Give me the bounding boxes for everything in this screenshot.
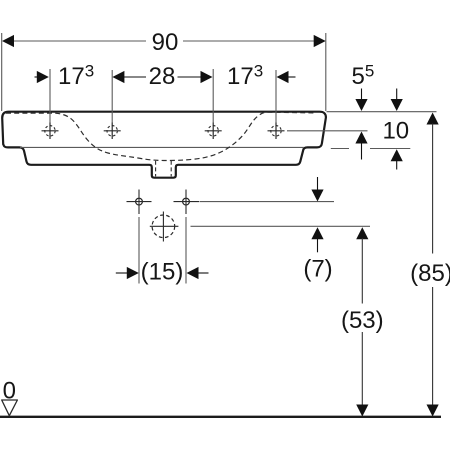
fixing hole right [183, 198, 190, 205]
dimension 28 left arrow [112, 71, 124, 83]
dimension 53 line [356, 227, 368, 239]
dimension 28 right arrow [178, 76, 203, 78]
dimension 7 bottom arrow [311, 227, 323, 239]
dimension 90 right arrow [314, 35, 326, 47]
extension line hole B [111, 70, 113, 123]
svg-text:(53): (53) [341, 307, 384, 334]
bowl interior dashed curve [6, 112, 316, 160]
floor line [0, 416, 441, 418]
tap hole B crosshair [104, 123, 121, 140]
datum triangle [2, 400, 18, 416]
dimension 10 top arrow [396, 89, 398, 102]
dimension 10 bottom arrow [391, 149, 403, 161]
basin outer silhouette [2, 112, 326, 178]
dimension 7 top arrow [317, 177, 319, 191]
dimension 5.5 top arrow [361, 89, 363, 102]
svg-text:(85): (85) [410, 260, 450, 287]
fixing hole left [136, 198, 143, 205]
drain notch dashed sides [155, 161, 157, 177]
dimension 17.3 right arrow [277, 71, 289, 83]
svg-text:90: 90 [152, 29, 179, 56]
extension line hole D [275, 70, 277, 123]
dimension 5.5 bottom arrow [355, 132, 367, 144]
dimension 90 left arrow [2, 35, 14, 47]
dimension 15 right arrow [187, 267, 199, 279]
dimension 90 line [13, 40, 146, 42]
dimension 90 right extension line [325, 33, 327, 111]
extension line hole C [212, 69, 214, 123]
dimension 15 extension lines [138, 217, 140, 284]
svg-text:(15): (15) [141, 259, 184, 286]
fixing holes leader line [200, 201, 335, 203]
basin rim/body junction line [20, 146, 304, 148]
extension line hole A [49, 69, 51, 123]
top reference line right [327, 111, 437, 113]
rim bottom reference line [331, 148, 349, 150]
drain hole dashed circle [152, 215, 175, 238]
svg-text:10: 10 [382, 117, 409, 144]
tap hole A crosshair [42, 123, 59, 140]
drain hole leader line [191, 225, 371, 227]
tap hole D crosshair [268, 123, 285, 140]
svg-text:28: 28 [149, 63, 176, 90]
tap hole C crosshair [205, 123, 222, 140]
svg-text:(7): (7) [303, 256, 332, 283]
dimension 85 line [427, 113, 439, 125]
dimension 15 left arrow [116, 272, 128, 274]
tap hole axis leader line [287, 130, 368, 132]
dimension 90 left extension line [1, 33, 3, 111]
dimension 17.3 left arrow [35, 76, 38, 78]
